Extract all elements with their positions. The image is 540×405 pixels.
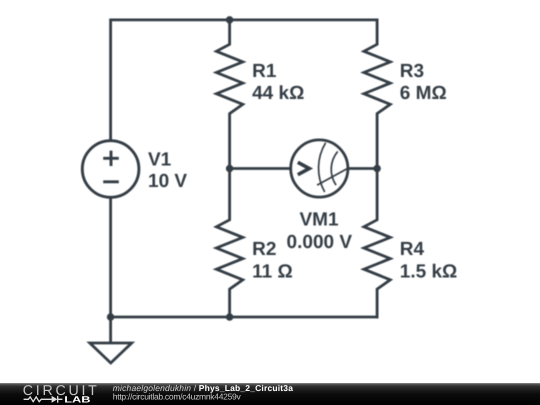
resistor R2 11 Ohm: [216, 169, 242, 318]
junction node top of R1: [226, 16, 234, 24]
CircuitLab logo resistor zigzag: [24, 396, 63, 403]
svg-text:http://circuitlab.com/c4uzmnk4: http://circuitlab.com/c4uzmnk44259v: [113, 392, 242, 402]
svg-text:R3: R3: [400, 61, 424, 82]
V1 plus sign: [103, 151, 119, 166]
svg-text:11 Ω: 11 Ω: [252, 262, 293, 283]
footer bar background: [0, 383, 540, 405]
svg-text:10 V: 10 V: [148, 171, 187, 192]
junction node bottom of R2: [226, 313, 234, 321]
VM1 needle: [317, 169, 347, 185]
resistor R4 1.5 kOhm: [364, 169, 390, 318]
junction node R1/R2/VM1: [226, 165, 234, 173]
ground triangle symbol: [90, 343, 132, 363]
VM1 chevron >: [298, 162, 310, 174]
svg-text:V1: V1: [148, 149, 172, 170]
CircuitLab logo diode triangle: [52, 396, 58, 403]
junction node ground tee: [107, 313, 115, 321]
V1 minus sign: [103, 180, 119, 183]
voltage source V1 circle: [82, 141, 139, 198]
svg-text:1.5 kΩ: 1.5 kΩ: [400, 262, 458, 283]
svg-text:VM1: VM1: [299, 210, 339, 231]
svg-text:R4: R4: [400, 239, 425, 260]
VM1 dial long arc: [319, 143, 326, 192]
svg-text:6 MΩ: 6 MΩ: [400, 83, 447, 104]
wire bottom ground rail: [111, 316, 378, 319]
svg-text:R2: R2: [252, 239, 276, 260]
svg-text:0.000 V: 0.000 V: [287, 232, 353, 253]
wire top rail from V1 branch to R3 branch: [111, 20, 378, 141]
resistor R1 44 kOhm: [216, 20, 242, 169]
CircuitLab logo diode bar and lead: [58, 396, 63, 403]
svg-text:R1: R1: [252, 61, 277, 82]
svg-text:44 kΩ: 44 kΩ: [252, 83, 304, 104]
ground stub wire: [109, 317, 112, 343]
resistor R3 6 MOhm: [364, 20, 390, 169]
svg-text:LAB: LAB: [64, 395, 91, 405]
footer attribution bar: [0, 383, 540, 405]
junction node R3/R4/VM1: [373, 165, 381, 173]
wire V1 bottom terminal to ground rail: [109, 198, 112, 318]
voltmeter VM1 circle: [291, 140, 348, 197]
VM1 dial short arc: [331, 151, 337, 185]
wire voltmeter to R3/R4 node: [347, 167, 377, 170]
wire middle rail R1/R2 node to voltmeter: [230, 167, 292, 170]
